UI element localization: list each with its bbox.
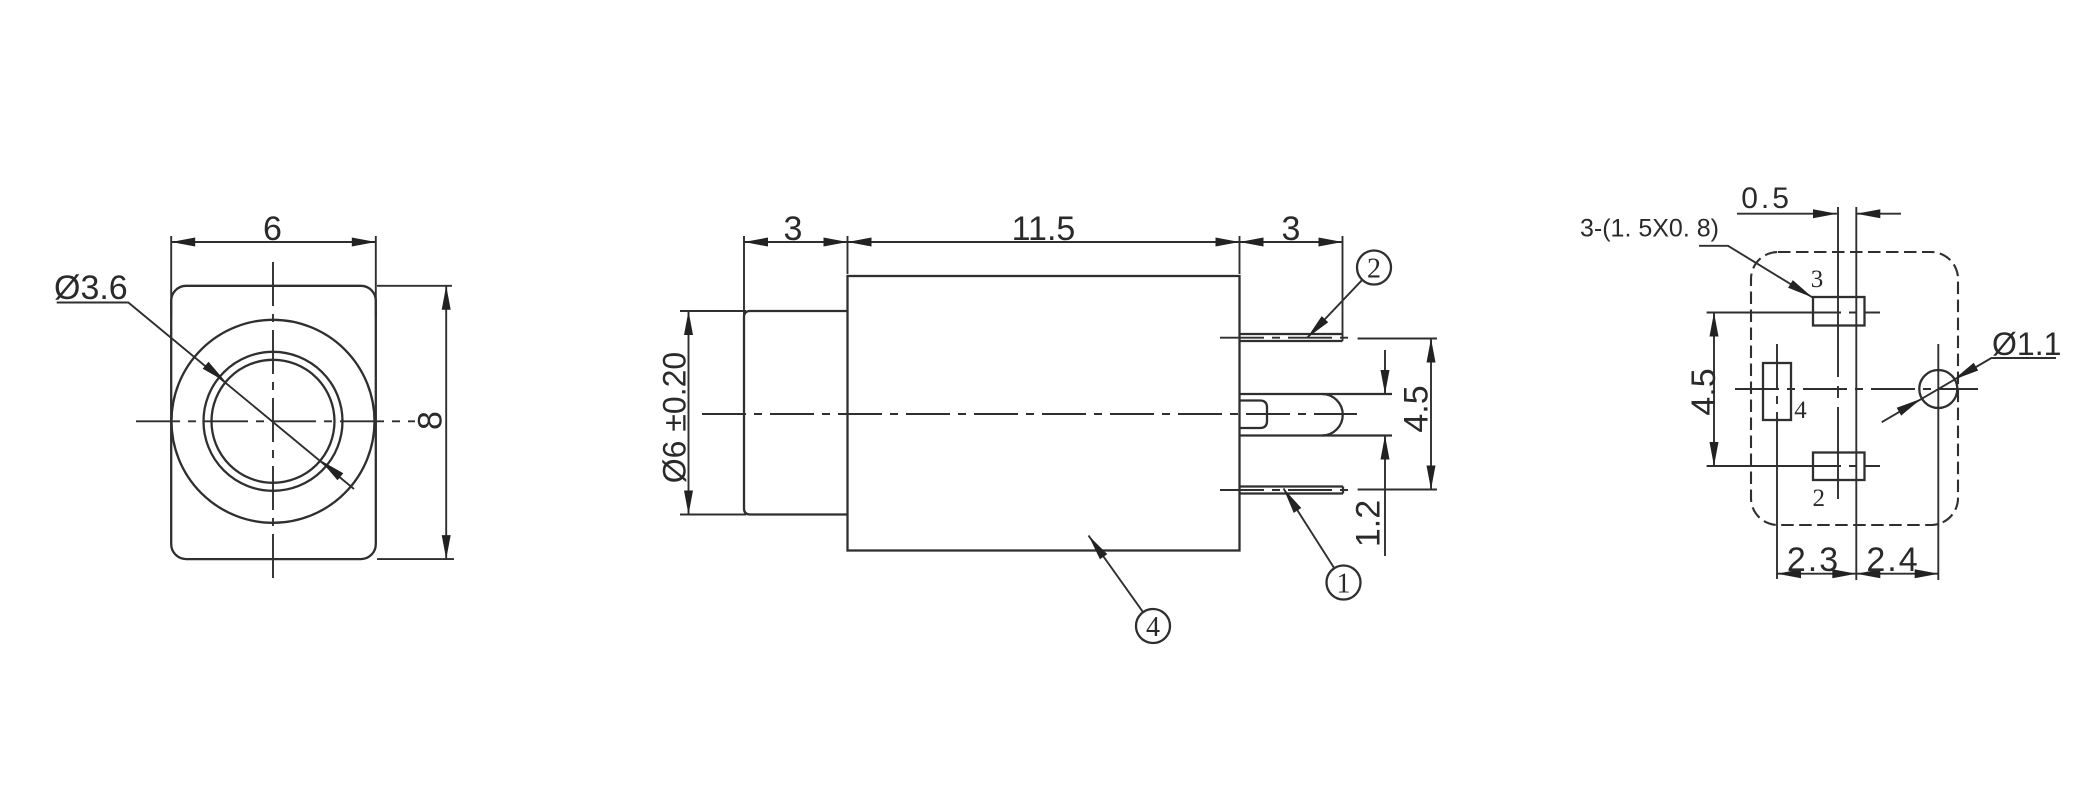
dimension 6 (top width) <box>171 210 376 316</box>
main housing body rectangle <box>848 276 1240 551</box>
svg-text:Ø3.6: Ø3.6 <box>54 269 128 307</box>
pad 3 (top solder pad) <box>1797 266 1880 326</box>
svg-text:1: 1 <box>1337 569 1351 600</box>
dimension 2.4 (leg centre to hole) <box>1856 541 1938 579</box>
svg-text:2.4: 2.4 <box>1866 541 1919 579</box>
callout balloon 2 <box>1307 251 1391 339</box>
svg-text:3-(1. 5X0. 8): 3-(1. 5X0. 8) <box>1580 215 1719 243</box>
vertical centerline <box>272 262 274 583</box>
outer circle of bushing <box>172 320 375 523</box>
pad 4 (left solder pad) <box>1763 344 1807 579</box>
dimension 1.2 (middle pin thickness) <box>1350 350 1390 556</box>
svg-text:Ø1.1: Ø1.1 <box>1992 326 2061 362</box>
dashed body outline <box>1751 252 1958 525</box>
note 3-(1.5X0.8) with leader <box>1580 215 1813 298</box>
dimension Ø6±0.20 (barrel diameter) <box>657 311 747 515</box>
pad 2 (bottom solder pad) <box>1797 453 1880 513</box>
front face rounded-square body outline <box>171 286 376 559</box>
callout balloon 1 <box>1284 489 1361 600</box>
svg-text:4: 4 <box>1146 612 1160 643</box>
svg-text:3: 3 <box>1282 210 1301 248</box>
horizontal centerline <box>136 420 415 422</box>
horizontal centerline through pad 4 and hole <box>1735 388 1978 390</box>
dimension 4.5 (pad pitch, right view) <box>1685 313 1797 467</box>
svg-text:Ø6 ±0.20: Ø6 ±0.20 <box>657 352 693 483</box>
svg-text:8: 8 <box>412 411 450 430</box>
pin 2 (top flat terminal) <box>1220 334 1356 341</box>
locating hole <box>1919 344 1957 580</box>
dimension 8 (right height) <box>377 286 454 559</box>
svg-text:2: 2 <box>1812 485 1825 512</box>
leader dimension Ø3.6 (hole diameter) <box>54 269 354 489</box>
dimension 4.5 (pin pitch, middle view) <box>1358 339 1437 490</box>
svg-text:4: 4 <box>1794 397 1807 424</box>
dimension 0.5 (leg width) <box>1737 182 1901 218</box>
callout balloon 4 <box>1089 536 1171 644</box>
dimension 11.5 (body length) <box>848 210 1240 274</box>
threaded barrel at left <box>744 311 848 515</box>
ring inner circle (3.6mm hole) <box>212 360 335 483</box>
pin legs vertical lines <box>1838 207 1856 580</box>
svg-text:2.3: 2.3 <box>1787 541 1840 579</box>
dimension 3 (pin length) <box>1240 210 1343 341</box>
svg-text:2: 2 <box>1367 254 1381 285</box>
svg-text:6: 6 <box>263 210 282 248</box>
middle pin (round tip terminal) <box>1240 394 1392 436</box>
svg-text:4.5: 4.5 <box>1398 385 1436 432</box>
svg-text:11.5: 11.5 <box>1012 210 1076 248</box>
pin 1 (bottom flat terminal) <box>1220 487 1356 494</box>
svg-text:0.5: 0.5 <box>1741 182 1792 215</box>
dimension 2.3 (pad4 to leg centre) <box>1777 541 1939 579</box>
axis centerline <box>702 413 1357 415</box>
svg-text:3: 3 <box>784 210 803 248</box>
svg-text:1.2: 1.2 <box>1350 500 1388 547</box>
svg-text:3: 3 <box>1811 266 1824 293</box>
dimension 3 (barrel length) <box>744 210 848 316</box>
ring outer circle <box>204 352 343 491</box>
leader dimension Ø1.1 (hole diameter) <box>1882 326 2062 422</box>
svg-text:4.5: 4.5 <box>1685 368 1723 415</box>
